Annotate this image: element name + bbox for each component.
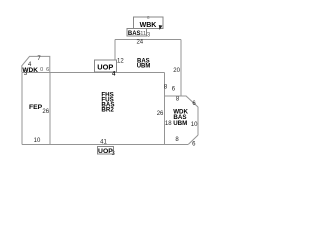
label box WBK [133,17,163,29]
wire: FEP right wall divider [49,72,51,144]
wire: main top wall line [22,71,165,73]
svg-text:26: 26 [157,111,164,117]
svg-text:FEP: FEP [29,104,43,111]
svg-text:10: 10 [34,138,41,144]
label box UOP top [95,60,117,72]
wire: upper-right top wall dim 24 [115,38,181,40]
svg-text:12: 12 [117,59,124,65]
label box BAS11 [127,29,147,37]
label box UOP bottom [97,146,113,154]
svg-text:0: 0 [40,67,43,73]
svg-text:UBM: UBM [173,120,187,127]
svg-text:24: 24 [136,40,143,46]
wire: FEP left wall [21,72,23,144]
wire: step vertical wall dim 8 [163,72,165,96]
wire: main bottom wall line [22,144,188,146]
svg-text:BR2: BR2 [101,107,114,114]
wire: vertical wall dim 12 [114,39,116,72]
svg-text:10: 10 [191,122,198,128]
svg-text:UOP: UOP [97,63,113,72]
svg-text:6: 6 [46,67,49,73]
wire: upper-right right wall dim 20 [180,39,182,96]
svg-text:UBM: UBM [137,64,151,70]
wire: bay right wall dim 10 [197,107,199,135]
svg-text:BAS: BAS [128,31,141,37]
svg-text:41: 41 [100,139,107,145]
svg-text:WBK: WBK [140,22,157,29]
svg-text:11: 11 [140,31,146,37]
svg-text:26: 26 [42,109,49,115]
wire: bay NE diagonal wall dim 6 [186,96,198,107]
wire: bay left wall dim 18 [163,96,165,145]
wire: bay SE diagonal wall dim 6 [188,135,198,145]
wire: bay top wall dim 8 [164,95,186,97]
svg-text:20: 20 [173,68,180,74]
arrow marker below WBK box [159,25,163,30]
wall outline of left wood deck WDK (clipped corner polygon) [22,56,50,72]
svg-text:18: 18 [165,121,172,127]
